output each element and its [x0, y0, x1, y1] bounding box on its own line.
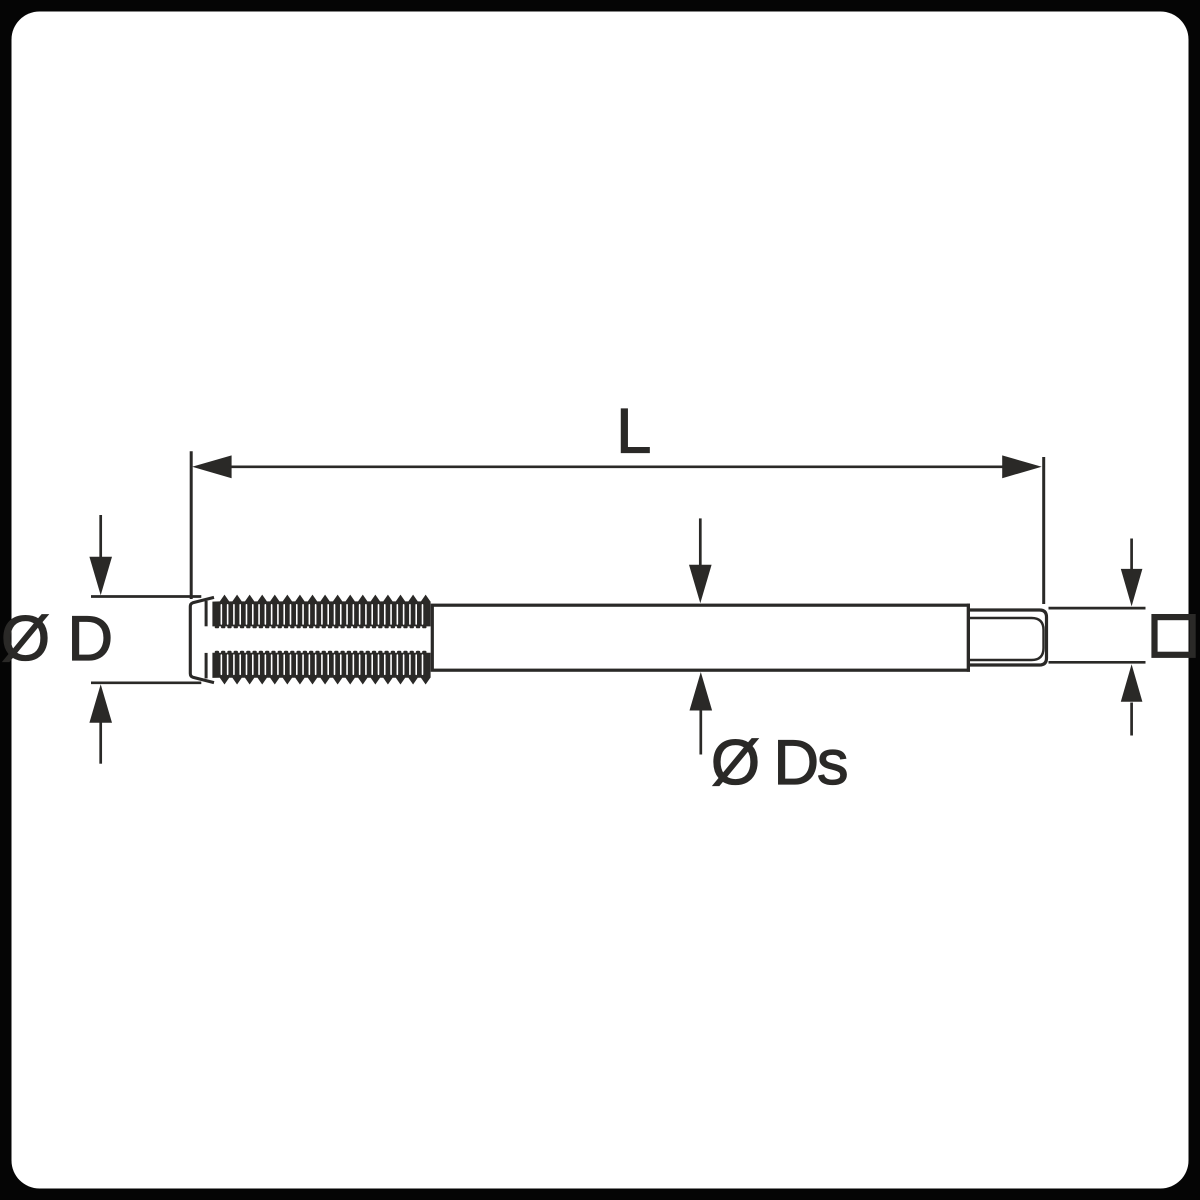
dimension L : dimension line: [230, 465, 1006, 468]
diameter D : upper arrowhead: [89, 557, 112, 596]
dimension L : left extension line: [190, 451, 193, 599]
svg-text:Ø Ds: Ø Ds: [711, 728, 847, 798]
square width : top extension line: [1049, 607, 1146, 610]
square width : upper arrowhead: [1121, 569, 1143, 607]
dimension L : right extension line: [1042, 457, 1045, 604]
svg-text:L: L: [616, 397, 651, 467]
square width : upper arrow leader: [1130, 539, 1133, 571]
dimension L : right arrowhead: [1002, 455, 1041, 478]
svg-text:Ø D: Ø D: [1, 604, 113, 674]
diameter Ds : lower arrowhead: [690, 672, 713, 711]
diameter D : lower arrowhead: [89, 684, 112, 723]
diameter Ds : lower arrow leader: [699, 711, 702, 755]
diameter D : top extension line: [91, 595, 201, 598]
diameter D : upper arrow leader: [99, 515, 102, 558]
tap: lower thread band: [212, 653, 430, 685]
tap: upper thread band flute slots: [221, 604, 424, 625]
square width : bottom extension line: [1049, 661, 1146, 664]
tap: thread left end outline with chamfer: [190, 597, 214, 682]
tap: lower thread band scallop edge: [216, 651, 430, 654]
tap: lower thread band flute slots: [221, 654, 424, 675]
tap: shank: [432, 605, 968, 670]
square width : lower arrow leader: [1130, 703, 1133, 736]
diameter Ds : upper arrow leader: [699, 518, 702, 565]
tap: square drive side view outer: [968, 610, 1046, 665]
diameter D : bottom extension line: [91, 681, 201, 684]
tap: square drive side view inner chamfer lines: [968, 618, 1043, 660]
tap: thread lead tooth bars lower: [205, 653, 208, 679]
dimension L : left arrowhead: [192, 455, 232, 478]
diameter Ds : upper arrowhead: [689, 565, 712, 604]
diameter D : lower arrow leader: [99, 723, 102, 764]
tap: upper thread band: [212, 595, 430, 627]
square width : lower arrowhead: [1121, 664, 1143, 702]
tap: upper thread band scallop edge: [216, 626, 430, 629]
tap: shank to square step line: [967, 604, 970, 672]
tap: thread lead tooth bars upper: [205, 601, 208, 627]
square end view: [1155, 617, 1193, 655]
